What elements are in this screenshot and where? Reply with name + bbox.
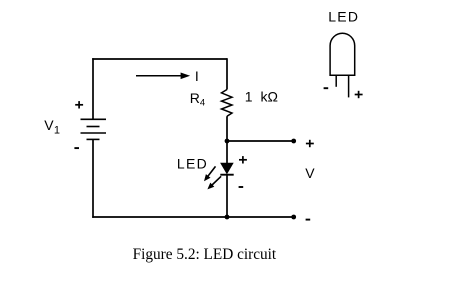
LED light arrow upper: [204, 166, 216, 181]
battery minus sign: [74, 147, 79, 149]
LED package drawing (top right): [330, 33, 355, 97]
svg-text:4: 4: [200, 98, 205, 109]
resistor R4: [222, 90, 233, 117]
svg-text:1: 1: [245, 89, 253, 105]
wire LED cathode to bottom rail: [226, 175, 228, 217]
terminal plus sign: [306, 140, 314, 147]
wire right branch top (rail to resistor): [226, 58, 228, 89]
svg-text:kΩ: kΩ: [261, 89, 278, 105]
LED diode (triangle and cathode bar): [220, 163, 233, 175]
svg-text:Figure 5.2: LED circuit: Figure 5.2: LED circuit: [133, 246, 277, 263]
wire left branch top: [92, 58, 94, 119]
wire resistor to LED anode: [226, 116, 228, 163]
node junction cathode: [225, 215, 230, 220]
node terminal plus: [291, 139, 296, 144]
diode plus sign: [239, 156, 247, 163]
LED package right lead (anode): [348, 75, 350, 97]
terminal minus sign: [306, 219, 311, 221]
wire left branch bottom: [92, 139, 94, 217]
label 1 kOhm: [245, 89, 278, 105]
label V1: [44, 117, 60, 136]
node terminal minus: [291, 215, 296, 220]
LED light arrow lower: [207, 176, 221, 189]
svg-text:R: R: [190, 90, 200, 106]
battery plus sign: [75, 101, 83, 108]
svg-text:V: V: [44, 117, 54, 133]
battery V1: [81, 119, 107, 139]
label R4: [190, 90, 205, 109]
svg-text:LED: LED: [328, 9, 359, 25]
svg-text:I: I: [195, 68, 199, 84]
wire bottom rail: [92, 216, 294, 218]
current arrow I: [136, 73, 190, 80]
node junction anode: [225, 139, 230, 144]
package plus sign: [355, 91, 363, 98]
wire anode node to plus terminal: [227, 140, 294, 142]
diode minus sign: [239, 186, 244, 188]
svg-text:1: 1: [54, 125, 60, 137]
wire top rail: [92, 58, 227, 60]
svg-text:V: V: [305, 165, 315, 181]
LED package left lead (cathode): [335, 75, 337, 87]
svg-text:LED: LED: [177, 156, 208, 172]
package minus sign: [324, 87, 329, 89]
